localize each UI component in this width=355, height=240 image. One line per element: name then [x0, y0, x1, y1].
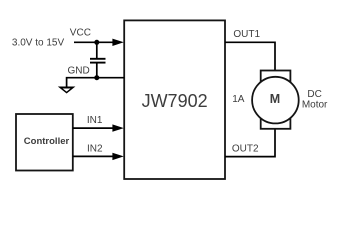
svg-text:Motor: Motor [302, 100, 328, 111]
svg-text:Controller: Controller [24, 136, 70, 147]
capacitor C1 [90, 59, 106, 63]
wire OUT2 to motor bottom [225, 129, 275, 157]
wire GND [67, 78, 125, 88]
svg-text:OUT2: OUT2 [232, 143, 259, 154]
svg-text:DC: DC [307, 89, 321, 100]
ground symbol [58, 87, 76, 94]
svg-text:GND: GND [68, 66, 90, 77]
svg-text:IN2: IN2 [87, 144, 103, 155]
wire OUT1 to motor top [225, 42, 275, 70]
svg-text:VCC: VCC [70, 28, 91, 39]
arrow into IN1 pin [112, 124, 123, 131]
svg-text:JW7902: JW7902 [142, 91, 208, 111]
arrow into VCC pin [112, 39, 123, 46]
wire from VCC node to capacitor [96, 42, 98, 58]
svg-text:1A: 1A [232, 94, 245, 105]
wire VCC input [74, 41, 114, 43]
wire from capacitor to GND line [96, 63, 98, 77]
controller box [16, 114, 73, 171]
svg-text:IN1: IN1 [87, 115, 103, 126]
IC U1 JW7902 [124, 20, 225, 179]
node junction dot on VCC line [94, 40, 99, 45]
node junction dot on GND line [94, 75, 99, 80]
svg-text:3.0V to 15V: 3.0V to 15V [12, 38, 65, 49]
wire IN2 [73, 155, 114, 157]
svg-text:M: M [270, 92, 280, 106]
svg-text:OUT1: OUT1 [233, 29, 260, 40]
wire IN1 [73, 127, 114, 129]
arrow into IN2 pin [112, 153, 123, 160]
motor M1 [252, 71, 299, 129]
value label DC Motor [302, 89, 328, 111]
